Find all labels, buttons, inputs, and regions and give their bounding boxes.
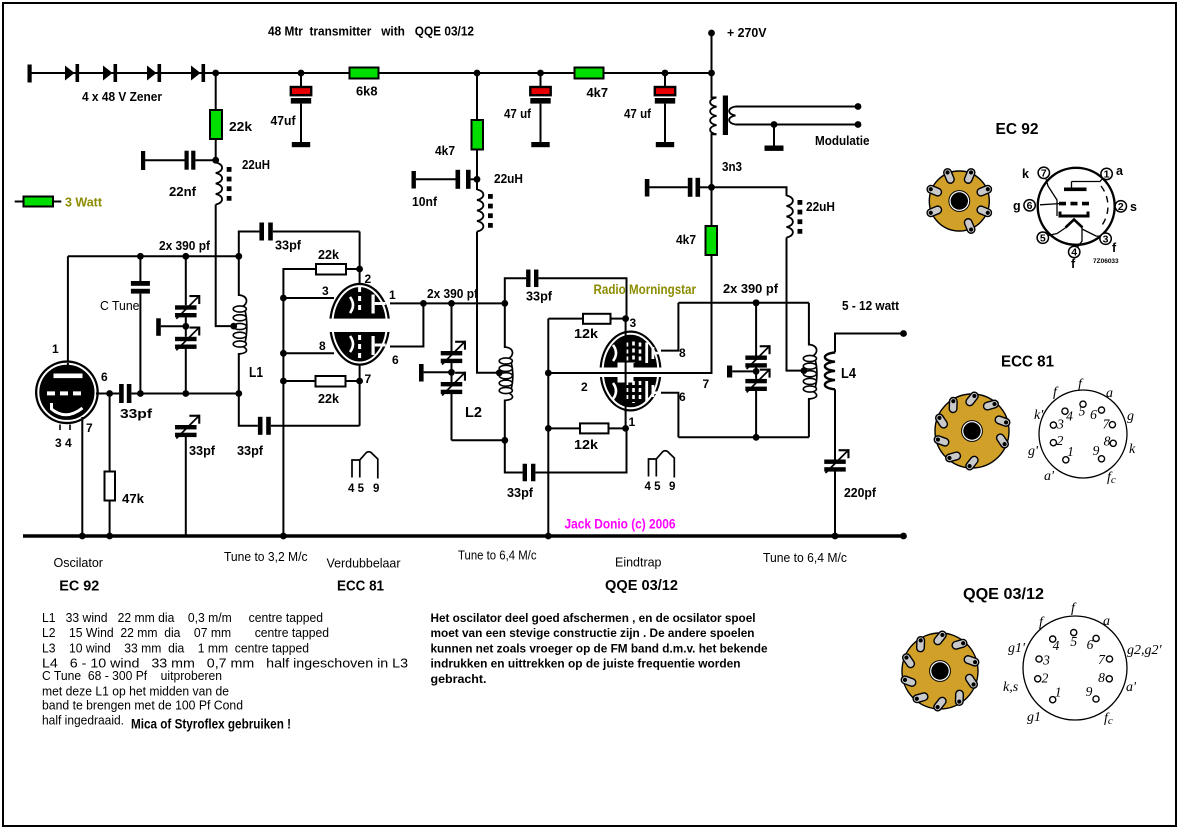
- svg-text:4k7: 4k7: [435, 144, 455, 158]
- heater symbol QQE: [649, 451, 675, 478]
- node ground tap modulation: [771, 121, 778, 128]
- node grid line varcap: [182, 390, 189, 397]
- terminal modulation bottom: [855, 121, 862, 128]
- node tank3 varcap top: [753, 299, 760, 306]
- svg-text:a: a: [1103, 614, 1110, 629]
- resistor legend 3 Watt: [24, 197, 54, 207]
- node junction 4k7 feed: [474, 70, 481, 77]
- wire grid line mid: [140, 393, 185, 395]
- capacitor 33pf oscillator grid: [119, 384, 124, 403]
- node osc varcap mid: [182, 323, 189, 330]
- inductor L1: [239, 295, 247, 307]
- wire L3 top lead: [808, 303, 810, 346]
- node tank3 L3 top: [753, 299, 760, 306]
- terminal bar 3n3 input: [645, 179, 650, 197]
- svg-text:7Z06033: 7Z06033: [1093, 258, 1119, 265]
- svg-text:2x 390 pf: 2x 390 pf: [159, 239, 211, 253]
- terminal rail right: [900, 533, 907, 540]
- resistor 4k7 rail: [575, 68, 604, 79]
- tube ECC81 envelope: [329, 283, 390, 366]
- svg-text:L4: L4: [841, 365, 857, 382]
- svg-text:5: 5: [1040, 232, 1046, 244]
- svg-text:gebracht.: gebracht.: [431, 672, 487, 686]
- pinout EC92 pin 7: [1038, 167, 1049, 178]
- inductor L3: [809, 345, 817, 357]
- inductor L2: [505, 347, 513, 359]
- svg-text:7: 7: [703, 377, 710, 391]
- capacitor variable 33pf oscillator: [175, 425, 197, 429]
- svg-text:4 5: 4 5: [348, 483, 365, 495]
- capacitor variable osc lower: [175, 337, 197, 341]
- transformer T1 core: [723, 96, 728, 136]
- wire 220pf to rail: [834, 471, 836, 536]
- node tank3 bottom junction: [753, 434, 760, 441]
- svg-text:6k8: 6k8: [356, 85, 378, 99]
- wire QQE tank bottom: [678, 436, 809, 438]
- svg-text:L1: L1: [249, 364, 263, 381]
- svg-text:9: 9: [669, 481, 675, 493]
- node ECC81 pin7: [356, 378, 363, 385]
- node L3 tap: [801, 367, 808, 374]
- svg-text:3 4: 3 4: [55, 436, 72, 450]
- socket QQE (gold): [902, 633, 978, 709]
- node tank2 L2 top: [501, 300, 508, 307]
- pinout EC92 pin 3: [1100, 233, 1111, 244]
- wire L1 coupling to cathode line: [271, 425, 360, 427]
- inductor L4: [825, 353, 835, 390]
- node L2 tap: [496, 369, 503, 376]
- svg-text:22k: 22k: [318, 248, 339, 262]
- svg-text:k: k: [1129, 442, 1136, 457]
- capacitor electrolytic 47 uf C2: [540, 73, 542, 88]
- wire tank2 stub: [424, 371, 452, 373]
- heater symbol ECC81: [352, 452, 378, 479]
- tube ECC81 lower triode internals: [350, 336, 353, 352]
- wire 22nf input lead: [145, 159, 185, 161]
- svg-text:1: 1: [629, 415, 636, 429]
- pinout QQE pin 5: [1071, 630, 1077, 636]
- wire 10nf to node: [471, 178, 477, 180]
- resistor 22k ECC81 lower: [316, 376, 346, 387]
- wire QQE top coupling to pin3: [538, 278, 626, 318]
- svg-text:4: 4: [1066, 409, 1073, 424]
- wire C-Tune lower lead: [139, 294, 141, 394]
- wire QQE pin1 stem: [625, 373, 627, 428]
- pinout QQE pin 1: [1050, 697, 1056, 703]
- wire 10nf input lead: [416, 178, 456, 180]
- pinout EC92 pin 4: [1069, 246, 1080, 257]
- svg-text:8: 8: [679, 346, 686, 360]
- svg-text:k: k: [1022, 167, 1029, 181]
- node rail QQE bus: [545, 533, 552, 540]
- svg-text:4 x 48 V Zener: 4 x 48 V Zener: [82, 90, 162, 104]
- node junction 47uf C2: [537, 70, 544, 77]
- node junction transformer feed: [708, 70, 715, 77]
- svg-text:1: 1: [1055, 685, 1062, 700]
- svg-text:6: 6: [101, 370, 108, 384]
- pinout EC92 pin 6: [1024, 200, 1035, 211]
- svg-text:L2 15 Wind 22 mm dia 0: L2 15 Wind 22 mm dia 07 mm centre tapped: [42, 626, 329, 640]
- svg-text:3 Watt: 3 Watt: [65, 196, 103, 210]
- svg-text:1: 1: [1104, 169, 1110, 181]
- svg-text:4: 4: [1053, 638, 1060, 653]
- terminal bar tank2 stub: [419, 364, 424, 382]
- capacitor 33pf QQE top coupling: [526, 270, 530, 288]
- pinout QQE pin 9: [1093, 696, 1099, 702]
- wire modulation secondary bottom: [736, 124, 859, 126]
- wire varcap2 middle: [451, 363, 453, 382]
- wire 3n3 to node: [700, 186, 712, 188]
- resistor 47k: [105, 472, 116, 501]
- svg-text:22uH: 22uH: [242, 158, 270, 172]
- svg-text:33pf: 33pf: [189, 444, 216, 458]
- wire varcap3 lower lead: [755, 391, 757, 438]
- svg-text:QQE 03/12: QQE 03/12: [605, 578, 678, 594]
- capacitor variable tank3 upper: [745, 356, 767, 360]
- pinout QQE pin 3: [1036, 656, 1042, 662]
- wire varcap2 upper lead: [451, 303, 453, 351]
- svg-text:kunnen net zoals vroeger op de: kunnen net zoals vroeger op de FM band d…: [431, 641, 768, 655]
- svg-text:220pf: 220pf: [844, 486, 877, 500]
- pinout ECC81 pin 4: [1062, 408, 1068, 414]
- pinout ECC81 circle: [1039, 390, 1127, 478]
- svg-text:3n3: 3n3: [722, 160, 742, 174]
- resistor 4k7 screen ECC81: [472, 120, 484, 150]
- wire osc output to ECC81: [273, 231, 360, 233]
- diode zener D2: [103, 66, 113, 81]
- capacitor variable 220pf: [824, 460, 846, 464]
- svg-text:4k7: 4k7: [676, 233, 696, 247]
- svg-text:33pf: 33pf: [120, 407, 153, 421]
- wire ECC81 pin6 lead: [390, 303, 423, 346]
- wire choke2 to L2 tap: [477, 232, 499, 373]
- svg-text:5: 5: [1070, 634, 1077, 649]
- pinout EC92 grid dashes: [1059, 202, 1091, 206]
- node QQE pin3: [622, 315, 629, 322]
- svg-text:2x 390 pf: 2x 390 pf: [427, 287, 479, 301]
- wire oscillator tank top: [68, 255, 239, 257]
- node bus 22k lower: [280, 378, 287, 385]
- capacitor 33pf QQE bottom coupling: [523, 464, 527, 482]
- tube ECC81 upper triode internals: [350, 297, 353, 313]
- pinout EC92 pin 1: [1101, 168, 1112, 179]
- svg-text:L2: L2: [465, 404, 482, 421]
- node tank2 varcap top: [448, 300, 455, 307]
- wire L3 bottom lead: [808, 398, 810, 437]
- svg-text:g1: g1: [1027, 710, 1041, 725]
- svg-text:g2,g2': g2,g2': [1127, 643, 1163, 658]
- svg-text:3: 3: [1042, 653, 1050, 668]
- svg-text:half ingedraaid.: half ingedraaid.: [42, 714, 124, 728]
- svg-text:g': g': [1028, 444, 1039, 459]
- tube EC92 envelope: [35, 360, 99, 424]
- tube EC92 heater pins: [59, 425, 61, 431]
- svg-text:Eindtrap: Eindtrap: [615, 556, 662, 570]
- wire tank3 stub: [732, 370, 756, 372]
- capacitor 33pf L1 bottom coupling: [258, 417, 263, 435]
- wire 4k7 choke chain drop: [476, 149, 478, 179]
- svg-text:12k: 12k: [574, 438, 598, 452]
- node rail 220pf: [832, 533, 839, 540]
- svg-text:1: 1: [52, 342, 59, 356]
- wire ECC81 pin7 lead: [359, 364, 361, 426]
- wire QQE pin6 lead: [661, 393, 678, 438]
- terminal bar 10nf input: [412, 171, 416, 189]
- wire 3n3 node to choke3: [712, 187, 787, 196]
- socket ECC81 (gold): [935, 394, 1009, 468]
- svg-text:Radio Morningstar: Radio Morningstar: [594, 281, 697, 297]
- capacitor variable osc upper: [175, 305, 197, 309]
- svg-text:moet van een stevige construct: moet van een stevige constructie zijn . …: [431, 626, 755, 640]
- node tank top L1: [235, 253, 242, 260]
- svg-text:33pf: 33pf: [526, 290, 553, 304]
- node 3n3 junction: [708, 184, 715, 191]
- wire C-Tune upper lead: [139, 256, 141, 281]
- svg-text:33pf: 33pf: [237, 444, 264, 458]
- svg-text:10nf: 10nf: [412, 195, 438, 209]
- capacitor C Tune: [131, 281, 150, 286]
- wire +270V drop: [711, 33, 713, 73]
- node 22nf junction: [212, 157, 219, 164]
- pinout QQE pin 7: [1106, 656, 1112, 662]
- wire L1 bottom coupling jog: [239, 394, 258, 426]
- pinout EC92 shield dashed arc: [1101, 186, 1108, 227]
- transformer T1 primary bottom lead: [712, 134, 717, 187]
- svg-text:48 Mtr transmitter with Q: 48 Mtr transmitter with QQE 03/12: [268, 24, 474, 39]
- svg-text:a: a: [1106, 386, 1113, 401]
- pinout EC92 pin 5: [1037, 232, 1048, 243]
- pinout EC92 pin 2: [1115, 201, 1126, 212]
- svg-text:L3 10 wind 33 mm dia: L3 10 wind 33 mm dia 1 mm centre tapped: [42, 641, 309, 655]
- node QQE pin1: [622, 425, 629, 432]
- wire 22k drop: [215, 73, 217, 111]
- wire ECC81 pin1 lead: [390, 302, 423, 304]
- wire osc varcap stub: [161, 325, 186, 327]
- wire EC92 cathode to rail: [81, 417, 83, 536]
- pinout ECC81 pin 3: [1050, 422, 1056, 428]
- svg-text:met deze L1 op het midden van: met deze L1 op het midden van de: [42, 684, 229, 698]
- wire choke to L1 tap: [216, 205, 234, 327]
- capacitor electrolytic 47 uf C3: [664, 73, 666, 88]
- svg-text:g: g: [1127, 409, 1134, 424]
- wire 10nf node to choke2: [476, 179, 478, 190]
- resistor 12k QQE upper: [583, 314, 611, 324]
- pinout ECC81 pin 8: [1110, 440, 1116, 446]
- capacitor variable tank2 lower: [441, 382, 463, 386]
- terminal bar supply input left: [28, 65, 32, 83]
- resistor 12k QQE lower: [580, 423, 609, 433]
- svg-text:47 uf: 47 uf: [624, 107, 652, 121]
- wire 3n3 input lead: [649, 186, 687, 188]
- tube QQE center band: [598, 368, 663, 378]
- wire tank2 top riser: [505, 278, 526, 303]
- wire osc varcap upper lead: [185, 256, 187, 305]
- transformer T1 secondary winding: [729, 107, 735, 125]
- wire EC92 grid to node: [96, 393, 110, 395]
- svg-text:Mica of Styroflex gebruiken !: Mica of Styroflex gebruiken !: [131, 716, 291, 731]
- svg-text:8: 8: [319, 339, 326, 353]
- tube QQE envelope: [600, 331, 662, 412]
- wire grid node to cap: [110, 393, 120, 395]
- wire choke3 to L3 tap: [787, 238, 804, 371]
- svg-text:Modulatie: Modulatie: [815, 134, 870, 148]
- capacitor variable tank2 upper: [441, 351, 463, 355]
- pinout QQE pin 4: [1050, 636, 1056, 642]
- tube QQE upper internals: [613, 345, 616, 361]
- svg-text:ECC 81: ECC 81: [337, 579, 384, 595]
- svg-text:s: s: [1130, 200, 1137, 214]
- svg-text:12k: 12k: [574, 327, 598, 341]
- pinout ECC81 pin 2: [1050, 440, 1056, 446]
- pinout QQE pin 2: [1035, 676, 1041, 682]
- tube QQE lower internals: [613, 383, 616, 399]
- node terminal +270V: [708, 30, 715, 37]
- svg-text:QQE 03/12: QQE 03/12: [963, 586, 1044, 603]
- svg-text:33pf: 33pf: [507, 486, 534, 500]
- wire 47k drop: [109, 394, 111, 473]
- svg-text:6: 6: [1027, 200, 1033, 212]
- resistor 22k oscillator anode: [210, 110, 222, 139]
- wire QQE internal stem: [625, 331, 627, 411]
- wire EC92 anode lead: [67, 256, 69, 361]
- wire top supply rail: [28, 72, 712, 74]
- wire QQE tank top: [678, 302, 809, 304]
- inductor choke 22uH osc: [216, 163, 222, 205]
- svg-text:7: 7: [365, 372, 372, 386]
- svg-text:8: 8: [1098, 670, 1105, 685]
- wire grid cap to C-Tune node: [131, 393, 140, 395]
- terminal bar 22nf input: [141, 151, 145, 170]
- node bus pin3: [280, 295, 287, 302]
- wire 22k lower right lead: [346, 380, 360, 382]
- terminal bar osc varcap stub: [156, 318, 161, 336]
- capacitor electrolytic 47uf C1: [300, 73, 302, 88]
- svg-text:EC 92: EC 92: [59, 579, 99, 595]
- node tank3 varcap mid: [753, 368, 760, 375]
- svg-text:6: 6: [1087, 637, 1094, 652]
- svg-text:Tune to 6,4 M/c: Tune to 6,4 M/c: [763, 551, 847, 565]
- wire osc output riser: [239, 232, 260, 257]
- node EC92 grid: [106, 390, 113, 397]
- svg-text:C Tune 68 - 300 Pf uitprob: C Tune 68 - 300 Pf uitproberen: [42, 669, 222, 683]
- terminal modulation top: [855, 103, 862, 110]
- svg-text:band te brengen met de 100 Pf: band te brengen met de 100 Pf Cond: [42, 698, 243, 712]
- wire grid line right: [186, 393, 239, 395]
- svg-text:C Tune: C Tune: [100, 299, 140, 313]
- pinout ECC81 pin 9: [1098, 456, 1104, 462]
- socket EC92 (gold): [929, 171, 989, 231]
- wire ECC81 pin3 lead: [283, 297, 334, 299]
- wire L2 bottom lead: [504, 400, 506, 441]
- svg-text:3: 3: [1056, 417, 1064, 432]
- node tank2 varcap mid: [448, 369, 455, 376]
- wire 12k upper left lead: [548, 318, 583, 320]
- svg-text:k,s: k,s: [1003, 680, 1019, 695]
- wire L1 bottom lead: [238, 353, 240, 394]
- svg-text:Tune to 6,4 M/c: Tune to 6,4 M/c: [458, 549, 537, 563]
- node bus pin8: [280, 350, 287, 357]
- svg-text:Tune to 3,2 M/c: Tune to 3,2 M/c: [224, 550, 308, 564]
- wire QQE screen line left: [548, 372, 625, 374]
- wire L4 bottom lead: [834, 389, 836, 459]
- svg-text:22nf: 22nf: [169, 185, 197, 199]
- pinout EC92 heater vee: [1066, 220, 1083, 228]
- tube EC92 cathode arc: [52, 403, 83, 415]
- svg-text:a': a': [1044, 469, 1055, 484]
- svg-text:g: g: [1013, 199, 1021, 213]
- node rail ECC81 bus: [280, 533, 287, 540]
- diode zener D1: [65, 66, 75, 81]
- svg-text:EC 92: EC 92: [996, 121, 1039, 138]
- svg-text:22uH: 22uH: [806, 200, 835, 214]
- node tank2 L2 bottom: [501, 437, 508, 444]
- svg-text:4k7: 4k7: [587, 86, 609, 100]
- terminal output: [900, 330, 907, 337]
- wire L2 top lead: [504, 303, 506, 348]
- pinout ECC81 pin 1: [1063, 457, 1069, 463]
- svg-text:2x 390 pf: 2x 390 pf: [723, 282, 779, 296]
- wire 22k lower left lead: [283, 380, 315, 382]
- wire ECC81 left bus: [282, 268, 284, 536]
- node junction zener out: [212, 70, 219, 77]
- capacitor 33pf osc output: [259, 223, 264, 241]
- svg-text:2: 2: [1057, 433, 1064, 448]
- wire varcap3 middle: [755, 367, 757, 379]
- svg-text:ECC 81: ECC 81: [1001, 354, 1054, 371]
- node osc varcap top: [182, 253, 189, 260]
- capacitor 10nf: [456, 170, 461, 189]
- wire 4k7 QQE top lead: [711, 187, 713, 226]
- svg-text:Het oscilator deel goed afsche: Het oscilator deel goed afschermen , en …: [431, 611, 756, 625]
- tube ECC81 center band: [327, 319, 392, 332]
- svg-text:k': k': [1034, 408, 1044, 423]
- svg-text:indrukken en uittrekken op de: indrukken en uittrekken op de juiste fre…: [431, 657, 741, 671]
- svg-text:22k: 22k: [318, 392, 339, 406]
- inductor choke 22uH ECC81: [477, 190, 483, 232]
- tube EC92 anode: [54, 374, 83, 379]
- svg-text:47 uf: 47 uf: [504, 107, 532, 121]
- node junction 47uf C3: [662, 70, 669, 77]
- wire modulation secondary top: [736, 106, 859, 108]
- node C-Tune top: [137, 253, 144, 260]
- svg-text:5: 5: [1079, 404, 1086, 419]
- svg-text:47k: 47k: [122, 492, 144, 506]
- svg-text:6: 6: [392, 353, 399, 367]
- wire QQE left bus: [547, 319, 549, 536]
- svg-text:33pf: 33pf: [275, 239, 302, 253]
- svg-text:5 - 12 watt: 5 - 12 watt: [842, 299, 900, 313]
- svg-text:7: 7: [1041, 168, 1047, 180]
- svg-text:g1': g1': [1008, 641, 1026, 656]
- transformer T1 primary top lead: [712, 73, 717, 98]
- wire ground rail: [23, 534, 904, 537]
- wire varcap2 lower lead: [451, 394, 453, 441]
- pinout EC92 anode bar: [1064, 188, 1087, 192]
- svg-text:3: 3: [322, 284, 329, 298]
- resistor 6k8: [350, 68, 379, 79]
- capacitor 3n3: [688, 178, 693, 197]
- wire L4 top lead to output: [835, 334, 904, 353]
- svg-text:a: a: [1116, 164, 1124, 178]
- wire QQE bottom coupling to pin1: [535, 428, 626, 472]
- node 10nf junction: [474, 176, 481, 183]
- svg-text:Jack Donio (c) 2006: Jack Donio (c) 2006: [565, 516, 676, 532]
- svg-text:+ 270V: + 270V: [727, 25, 767, 40]
- wire 12k lower left lead: [548, 427, 580, 429]
- wire L1 top lead: [238, 256, 240, 296]
- pinout ECC81 pin 6: [1098, 407, 1104, 413]
- wire ECC81 pin8 lead: [283, 352, 334, 354]
